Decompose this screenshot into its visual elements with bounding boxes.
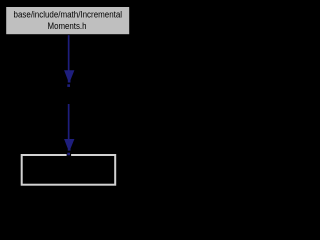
arrowhead 1 [64,70,74,82]
arrow tip dot 2 [67,153,70,156]
arrowhead 2 [64,139,74,151]
node empty box [22,155,116,185]
notch in border at arrow tip [67,154,72,157]
wire edge 2 [68,104,70,139]
wire edge 1 [68,35,70,70]
arrow tip dot 1 [67,84,70,87]
node IncrementalMoments.h [6,7,129,34]
svg-text:base/include/math/Incremental: base/include/math/Incremental [14,10,123,20]
svg-text:Moments.h: Moments.h [48,21,87,31]
